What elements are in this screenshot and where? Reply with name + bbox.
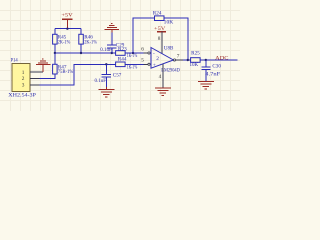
resistor R23 (116, 47, 138, 60)
pin 7 stub (173, 54, 183, 61)
wire R47 bottom stem to P14 pin2 (40, 74, 55, 78)
junction C30 on output (205, 59, 207, 61)
junction (+5V stem on rail) (66, 28, 68, 30)
junction feedback on N6 (132, 52, 134, 54)
ground (at P14 pin1, inverted) (36, 59, 51, 72)
power port +5V (op-amp pin 8) (154, 26, 166, 32)
junction R45/R47 on N6 (54, 52, 56, 54)
svg-text:R23: R23 (118, 47, 127, 53)
connector P14 (8, 58, 36, 99)
ground (above C29) (105, 24, 120, 33)
svg-text:75R-1%: 75R-1% (58, 69, 74, 75)
svg-text:6: 6 (141, 47, 144, 53)
wire R45 top stem (54, 29, 56, 35)
svg-text:0.1uF: 0.1uF (95, 78, 107, 84)
svg-text:R25: R25 (191, 51, 200, 57)
wire net N5 (from P14 pin3 to non-inverting input) (40, 64, 144, 85)
capacitor C57 (95, 64, 122, 87)
svg-text:1: 1 (22, 70, 25, 76)
pin 5 stub (141, 58, 150, 66)
junction C29 on N6 (111, 52, 113, 54)
resistor R24 (153, 11, 174, 26)
wire R46 top stem (80, 29, 82, 35)
junction R46 on N6 (80, 52, 82, 54)
output wire to R25 (183, 59, 238, 61)
svg-text:8: 8 (158, 36, 161, 42)
pin 6 stub (141, 47, 150, 55)
ground (below C30) (198, 81, 214, 89)
pin 3 of P14 (30, 84, 40, 86)
svg-text:4.7nF: 4.7nF (205, 72, 220, 78)
wire R45 bottom stem (54, 44, 56, 53)
wire R46 bottom stem (80, 44, 82, 53)
svg-text:C57: C57 (113, 73, 122, 79)
wire net N6 (to inverting input) (55, 52, 144, 54)
svg-text:5: 5 (141, 58, 144, 64)
capacitor C30 (201, 60, 221, 81)
svg-text:1K-1%: 1K-1% (127, 53, 138, 59)
svg-text:2K-1%: 2K-1% (58, 39, 71, 45)
svg-text:R24: R24 (153, 11, 162, 17)
svg-text:2K-1%: 2K-1% (84, 39, 97, 45)
svg-text:3: 3 (22, 82, 25, 88)
resistor R25 (190, 51, 201, 68)
svg-text:+: + (153, 62, 156, 68)
svg-text:P14: P14 (11, 58, 19, 64)
capacitor C29 (100, 32, 124, 53)
ground (below C57) (98, 87, 114, 97)
resistor R45 (53, 34, 71, 45)
ground (op-amp pin 4) (155, 88, 171, 95)
svg-text:R44: R44 (118, 57, 127, 63)
resistor R46 (79, 34, 98, 45)
pin 4 stem (162, 64, 164, 87)
svg-text:10K: 10K (164, 20, 174, 26)
resistor R44 (116, 57, 138, 71)
svg-text:7: 7 (177, 54, 180, 60)
pin 1 of P14 (30, 71, 43, 73)
svg-text:0.1uF: 0.1uF (100, 47, 112, 53)
wire +5V rail (55, 28, 81, 30)
wire R47 top stem (54, 53, 56, 64)
svg-text:LM2904D: LM2904D (161, 67, 180, 73)
pin 2 of P14 (30, 77, 40, 79)
svg-text:+5V: +5V (61, 12, 72, 18)
resistor R47 (53, 64, 74, 75)
junction feedback on output (187, 59, 189, 61)
op-amp U8B LM2904D (151, 46, 180, 74)
svg-text:U8B: U8B (164, 46, 174, 52)
svg-text:10K: 10K (190, 62, 199, 68)
svg-text:4: 4 (159, 74, 162, 80)
feedback wire (N6 up, over R24, down to output) (133, 18, 188, 60)
pin 8 stem (161, 32, 163, 54)
svg-text:-: - (153, 51, 155, 57)
power port +5V (left) (61, 12, 72, 28)
svg-text:1K-1%: 1K-1% (127, 65, 138, 71)
svg-text:C30: C30 (212, 63, 221, 69)
svg-text:2: 2 (156, 56, 159, 62)
svg-text:XH2.54-3P: XH2.54-3P (8, 93, 36, 99)
svg-text:ADC: ADC (215, 55, 229, 61)
junction C57 on N5 (105, 63, 107, 65)
svg-text:2: 2 (22, 76, 25, 82)
